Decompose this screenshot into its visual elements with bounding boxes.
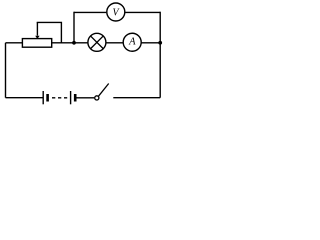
battery cell 2 long plate xyxy=(70,91,72,104)
battery dashed link xyxy=(52,97,67,99)
wire left lead to rheostat xyxy=(6,42,23,44)
battery cell 2 short thick plate xyxy=(74,94,77,102)
switch lever xyxy=(98,84,108,97)
wire slider loop xyxy=(37,22,61,42)
wire rheostat right lead xyxy=(52,42,88,44)
node junction dot right rail xyxy=(158,41,162,45)
switch S pivot circle xyxy=(95,96,99,100)
battery cell 1 long plate xyxy=(42,91,44,104)
battery cell 1 short thick plate xyxy=(46,94,49,102)
wire vertical from top rail to lamp row xyxy=(73,12,75,43)
wire left rail xyxy=(5,43,7,98)
node junction dot lamp row xyxy=(72,41,76,45)
wire ammeter to right rail xyxy=(141,42,160,44)
wire switch to bottom right xyxy=(113,97,160,99)
svg-text:V: V xyxy=(112,7,120,18)
rheostat slider arrow xyxy=(35,22,39,39)
lamp (circle with X) xyxy=(88,33,106,51)
svg-text:A: A xyxy=(128,37,136,48)
wire right rail xyxy=(159,12,161,98)
wire lamp to ammeter xyxy=(106,42,123,44)
wire top rail right segment xyxy=(125,11,160,13)
resistor R (rheostat body) xyxy=(22,39,51,48)
wire top rail left segment xyxy=(74,11,106,13)
voltmeter V xyxy=(107,3,125,21)
wire battery to switch xyxy=(77,97,95,99)
wire bottom rail left segment xyxy=(6,97,44,99)
ammeter A xyxy=(123,33,141,51)
